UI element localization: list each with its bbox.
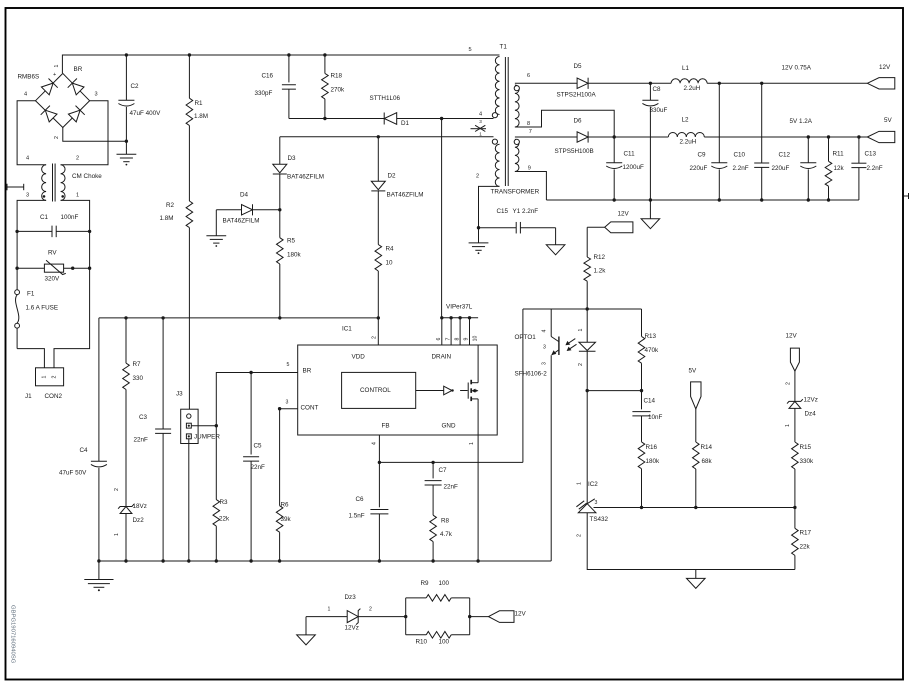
svg-text:1: 1 [785,424,791,427]
svg-text:3: 3 [26,192,29,198]
label L1 [682,65,690,72]
label C13 [865,150,877,157]
label 10nF [648,414,663,421]
svg-text:12V: 12V [879,64,891,71]
zener diode Dz3 12Vz [347,609,360,625]
label IC1 [342,325,352,332]
label R2 [166,202,175,209]
capacitor C13 2.2nF [851,137,866,200]
diode D6 STPS5H100B [577,131,588,142]
label STPS5H100B [555,148,594,155]
svg-text:C12: C12 [779,151,791,158]
label BAT46ZFILM (D2) [387,191,424,198]
left margin fold mark [7,184,24,190]
T1 pin 4 number [479,112,482,118]
label C10 [734,151,746,158]
label 2.2uH (L2) [680,138,697,145]
inductor L2 2.2uH [668,133,704,138]
svg-text:1.8M: 1.8M [160,215,174,222]
svg-text:4: 4 [24,91,27,97]
wire: R7 to Dz2 [125,390,127,507]
svg-text:GND: GND [442,422,456,429]
bridge diode top-right [68,79,84,95]
svg-text:1: 1 [114,533,120,536]
capacitor C3 22nF [155,318,171,561]
svg-text:R1: R1 [195,100,204,107]
label CON2 [45,393,63,400]
wire: choke bottom-left to C1 rail [17,200,46,231]
label R12 [594,254,606,261]
svg-text:CONT: CONT [301,404,319,411]
svg-text:DRAIN: DRAIN [432,353,452,360]
resistor R16 180k [638,442,645,508]
label 100nF [61,214,79,221]
IC2 pin 2 number [576,534,582,537]
wire: R2 down to jumper J3 pin 1 [188,228,190,414]
svg-text:39k: 39k [281,516,292,523]
label 12V (bottom tag) [515,610,527,617]
wire: rectified HV+ top rail [62,55,499,73]
IC1 pin name GND [442,422,456,429]
svg-text:2: 2 [785,382,791,385]
svg-text:2: 2 [576,534,582,537]
label R16 [646,444,658,451]
svg-text:C4: C4 [80,447,89,454]
wire: J3 pin 2 link to BR divider [191,424,218,427]
bridge pin 2 mark [54,136,60,139]
svg-text:T1: T1 [500,43,508,50]
op-amp/controller IC1 VIPer37L body [298,345,498,435]
ground: primary chassis ground [84,561,113,591]
choke pin 4 label [26,156,29,162]
svg-text:12Vz: 12Vz [804,396,818,403]
label 2.2uH (L1) [684,85,701,92]
wire: pin 9 to secondary ground rail [515,172,547,201]
svg-text:100: 100 [439,580,450,587]
svg-text:D3: D3 [288,155,297,162]
svg-text:8: 8 [454,337,460,340]
inductor L1 2.2uH [671,79,707,84]
svg-text:Dz4: Dz4 [805,410,817,417]
svg-text:GBPG1907160940SG: GBPG1907160940SG [10,605,16,664]
svg-text:22nF: 22nF [251,464,266,471]
Dz3 pin 2 number [369,607,372,613]
label 330k [800,458,815,465]
svg-text:FB: FB [382,422,390,429]
wire: aux winding pin 2 to primary ground node [477,186,500,229]
label BAT46ZFILM (D3) [287,173,324,180]
label 2.2nF (C10) [733,165,749,172]
svg-text:R5: R5 [287,237,296,244]
svg-text:C13: C13 [865,150,877,157]
IC1 pin 3 number [286,400,289,406]
IC1 pin name DRAIN [432,353,452,360]
capacitor C12 220uF [800,137,816,200]
svg-text:330pF: 330pF [255,90,273,97]
wire: bridge AC right arm [61,101,108,165]
wire: primary signal ground rail [97,559,551,562]
svg-text:1: 1 [76,192,79,198]
wire: pin 7 to D6 [515,136,577,138]
wire: R9/R10 to 12V tag [468,615,489,618]
label C7 [439,467,448,474]
label D3 [288,155,297,162]
diode D1 STTH1L06 [384,113,397,125]
ground: secondary main (open triangle) [641,200,660,229]
svg-text:4: 4 [26,156,29,162]
svg-text:2: 2 [76,156,79,162]
svg-text:R9: R9 [421,580,430,587]
svg-text:Dz2: Dz2 [133,517,145,524]
svg-text:9: 9 [528,165,531,171]
capacitor C11 1200uF [606,137,622,202]
label C15 [497,208,509,215]
svg-text:12Vz: 12Vz [345,624,359,631]
resistor R12 1.2k [584,227,591,309]
capacitor C14 10nF [632,391,650,442]
svg-text:320V: 320V [45,275,61,282]
svg-text:1: 1 [42,375,48,378]
svg-text:1: 1 [469,442,475,445]
svg-text:CONTROL: CONTROL [360,387,391,394]
svg-text:4: 4 [541,329,547,332]
label C5 [254,442,263,449]
wire: ground to Dz3 [306,616,347,618]
label 4.7k [440,531,453,538]
label R11 [833,150,845,157]
wire: pin 8 jog to 5V node [515,110,616,139]
transformer T1 12V secondary winding (pins 6-8) [515,85,519,127]
svg-text:1.8M: 1.8M [194,113,208,120]
svg-text:R10: R10 [416,638,428,645]
bridge rectifier BR (RMB6S) diamond [36,73,90,127]
svg-text:3: 3 [479,119,482,124]
resistor R5 180k [277,210,284,318]
svg-text:C10: C10 [734,151,746,158]
svg-text:2.2uH: 2.2uH [680,138,697,145]
svg-text:C15: C15 [497,208,509,215]
bridge pin 4 label [24,91,27,97]
wire: left rail C1 to RV [16,231,18,268]
label R6 [281,501,290,508]
label C8 [653,86,662,93]
resistor R3 22k [213,500,220,561]
label 39k [281,516,292,523]
svg-text:RMB6S: RMB6S [18,73,40,80]
IC2 pin 3 number [595,500,598,506]
svg-text:18Vz: 18Vz [133,503,147,510]
label L2 [682,116,690,123]
label SFH6106-2 [515,370,548,377]
T1 pin 2 number [476,174,479,180]
svg-text:STPS2H100A: STPS2H100A [557,91,597,98]
svg-text:4: 4 [372,442,378,445]
T1 unused pins 3/1 mark [471,119,487,137]
OPTO1 light arrows [565,339,576,351]
label RV [48,249,57,256]
label 47uF 50V [59,469,87,476]
resistor R11 12k [825,137,832,200]
right margin fold mark [904,193,909,199]
capacitor C6 1.5nF [370,462,388,561]
svg-text:2.2nF: 2.2nF [867,165,883,172]
label T1 [500,43,508,50]
label 470k [645,347,660,354]
wire: 5V rail D6 to L2 [588,136,668,138]
label 2.2nF (C13) [867,165,883,172]
transformer T1 5V secondary polarity circle [514,139,519,144]
svg-text:R14: R14 [701,444,713,451]
svg-text:R12: R12 [594,254,606,261]
IC1 internal MOSFET [460,380,478,401]
wire: R4 to VDD rail and VDD pin [377,271,380,345]
label R17 [800,529,812,536]
svg-text:22nF: 22nF [444,483,459,490]
Dz2 pin 1 label [114,533,120,536]
label C1 [40,214,49,221]
T1 pin 8 number [527,121,530,127]
wire: TS432 reference rail [594,506,797,509]
common mode choke CM Choke [42,164,65,202]
svg-text:100nF: 100nF [61,214,79,221]
svg-text:4.7k: 4.7k [440,531,453,538]
bridge pin 1 marks [53,64,60,77]
label Dz4 [805,410,817,417]
svg-text:L2: L2 [682,116,690,123]
svg-text:C9: C9 [698,151,707,158]
wire: pin 6 to D5 [515,82,577,84]
OPTO1 LED pin 1 number [578,328,584,331]
wire: Dz3 to R9/R10 block [358,615,407,618]
ground: aux return (3-bar) [469,228,489,254]
svg-text:10: 10 [386,259,394,266]
IC1 drain pin 6 number [436,337,442,340]
svg-text:6: 6 [436,337,442,340]
svg-text:180k: 180k [287,251,302,258]
svg-text:RV: RV [48,249,57,256]
Dz2 pin 2 label [114,488,120,491]
svg-text:F1: F1 [27,290,35,297]
svg-text:R3: R3 [220,499,229,506]
label 220uF (C9) [690,165,708,172]
transformer T1 5V secondary winding (pins 7-9) [515,139,519,171]
wire: node B (LED cathode to R13/C14) [586,389,644,392]
svg-text:CON2: CON2 [45,393,63,400]
resistor R14 68k [693,409,700,508]
T1 pin 6 number [527,73,530,79]
label 5V (output) [884,117,893,124]
Dz3 pin 1 number [328,607,331,613]
IC1 pin name VDD [352,353,366,360]
power tag 12V (feedback) [786,332,800,371]
IC1 pin 5 number [287,362,290,368]
capacitor C16 330pF [282,55,296,119]
wire: secondary ground rail [546,198,859,201]
wire: fuse to J1 pin 1 [17,349,44,368]
svg-text:2: 2 [372,336,378,339]
wire: snubber bottom rail [289,117,384,120]
svg-text:1: 1 [54,64,60,67]
svg-text:1: 1 [578,328,584,331]
svg-text:2: 2 [52,375,58,378]
label R8 [441,517,450,524]
svg-text:BR: BR [74,66,83,73]
bridge pin 3 label [95,91,98,97]
resistor R17 22k [792,508,799,570]
label R3 [220,499,229,506]
zener diode Dz2 18Vz [118,504,134,561]
label 1.5nF [349,512,365,519]
label 22nF (C3) [134,436,149,443]
label 5V 1.2A [790,118,813,125]
transformer T1 aux polarity circle [492,139,497,144]
label 100 (R10) [439,638,450,645]
choke pin 1 label [76,192,79,198]
label 1.8M (R1) [194,113,208,120]
label R18 [331,72,343,79]
IC1 pin name CONT [301,404,319,411]
diode D2 BAT46ZFILM [371,137,385,245]
svg-text:R18: R18 [331,72,343,79]
label BR [74,66,83,73]
diode D5 STPS2H100A [577,78,588,89]
label IC2 [588,481,598,488]
label C11 [624,150,636,157]
label 12Vz (Dz3) [345,624,359,631]
svg-text:R7: R7 [133,361,142,368]
svg-text:220uF: 220uF [690,165,708,172]
label R14 [701,444,713,451]
bridge diode bottom-right [68,106,84,122]
resistor R8 4.7k [430,515,437,561]
svg-text:9: 9 [464,337,470,340]
resistor R4 10 [375,245,382,272]
label OPTO1 [515,334,537,341]
svg-text:R8: R8 [441,517,450,524]
label R7 [133,361,142,368]
svg-text:C11: C11 [624,150,636,157]
svg-text:270k: 270k [331,86,346,93]
power tag 12V (bottom) [489,611,515,623]
wire: FB riser to opto node [522,309,524,462]
label STPS2H100A [557,91,597,98]
svg-text:R4: R4 [386,245,395,252]
wire: VDD rail [99,316,378,319]
svg-text:C3: C3 [139,414,148,421]
T1 pin 7 number [529,129,532,135]
capacitor C15 Y1 2.2nF [479,222,556,234]
capacitor C10 2.2nF [754,83,769,200]
svg-text:12V: 12V [786,332,798,339]
svg-text:5V: 5V [689,367,698,374]
svg-text:BAT46ZFILM: BAT46ZFILM [223,217,260,224]
label 12Vz (Dz4) [804,396,818,403]
label 47uF 400V [130,110,162,117]
label D4 [240,191,249,198]
output tag 12V [867,78,895,89]
svg-text:J3: J3 [176,390,183,397]
IC1 pin 2 number [372,336,378,339]
capacitor C7 22nF [425,462,442,515]
label 10 [386,259,394,266]
svg-text:J1: J1 [25,393,32,400]
svg-text:STPS5H100B: STPS5H100B [555,148,594,155]
OPTO1 pin 3 number (base side) [543,345,546,351]
svg-text:5: 5 [287,362,290,368]
svg-text:D1: D1 [401,120,410,127]
diode D3 BAT46ZFILM [273,137,287,210]
svg-text:47uF 400V: 47uF 400V [130,110,162,117]
svg-text:220uF: 220uF [772,165,790,172]
svg-text:D5: D5 [574,63,583,70]
label 1.2k [594,267,607,274]
resistor R1 1.8M [186,55,193,126]
svg-text:BR: BR [303,367,312,374]
ground: feedback (open triangle) [687,570,706,589]
wire: aux winding line [280,135,494,138]
wire: R1 to R2 [188,126,190,202]
label R9 [421,580,430,587]
transformer T1 primary polarity circle pin 4 [492,113,497,118]
resistor R6 39k [276,409,283,561]
svg-text:22k: 22k [800,543,811,550]
IC2 pin 1 number [576,482,582,485]
wire: right rail to J1 pin 2 [54,268,90,368]
fuse F1 1.6 A [15,268,20,348]
label 220uF (C12) [772,165,790,172]
transformer T1 aux winding (pins 3-2) [495,144,499,186]
svg-text:R17: R17 [800,529,812,536]
label 12V 0.75A [782,64,812,71]
svg-text:10nF: 10nF [648,414,663,421]
label J3 [176,390,183,397]
capacitor C9 220uF [711,83,727,200]
svg-text:2: 2 [476,174,479,180]
svg-text:7: 7 [445,337,451,340]
choke pin 2 label [76,156,79,162]
svg-text:22k: 22k [219,515,230,522]
ground: secondary at C15 (open triangle) [546,228,565,255]
svg-text:D6: D6 [574,117,583,124]
wire: bridge minus to C2 node [63,128,128,143]
svg-text:2: 2 [369,607,372,613]
label VIPer37L [446,303,473,310]
T1 pin 9 number [528,165,531,171]
jumper J3 [181,409,198,443]
svg-text:CM Choke: CM Choke [72,173,102,180]
label 270k [331,86,346,93]
label C2 [131,83,140,90]
diode D4 BAT46ZFILM [216,204,279,215]
svg-text:180k: 180k [646,458,661,465]
label 12V (bias tag) [618,210,630,217]
transformer T1 12V secondary polarity circle [514,86,519,91]
junction: D3/D4/R5 node [278,208,281,211]
label 12V (output) [879,64,891,71]
label R4 [386,245,395,252]
choke pin 3 label [26,192,29,198]
svg-text:2: 2 [578,363,584,366]
wire: J3 pin 3 to ground rail [188,439,190,561]
wire: drain pin bus [440,316,478,345]
zener diode Dz4 12Vz [787,371,803,442]
label 100 (R9) [439,580,450,587]
svg-text:2.2uH: 2.2uH [684,85,701,92]
svg-text:C7: C7 [439,467,448,474]
svg-text:R15: R15 [800,444,812,451]
svg-text:C2: C2 [131,83,140,90]
svg-text:47uF 50V: 47uF 50V [59,469,87,476]
